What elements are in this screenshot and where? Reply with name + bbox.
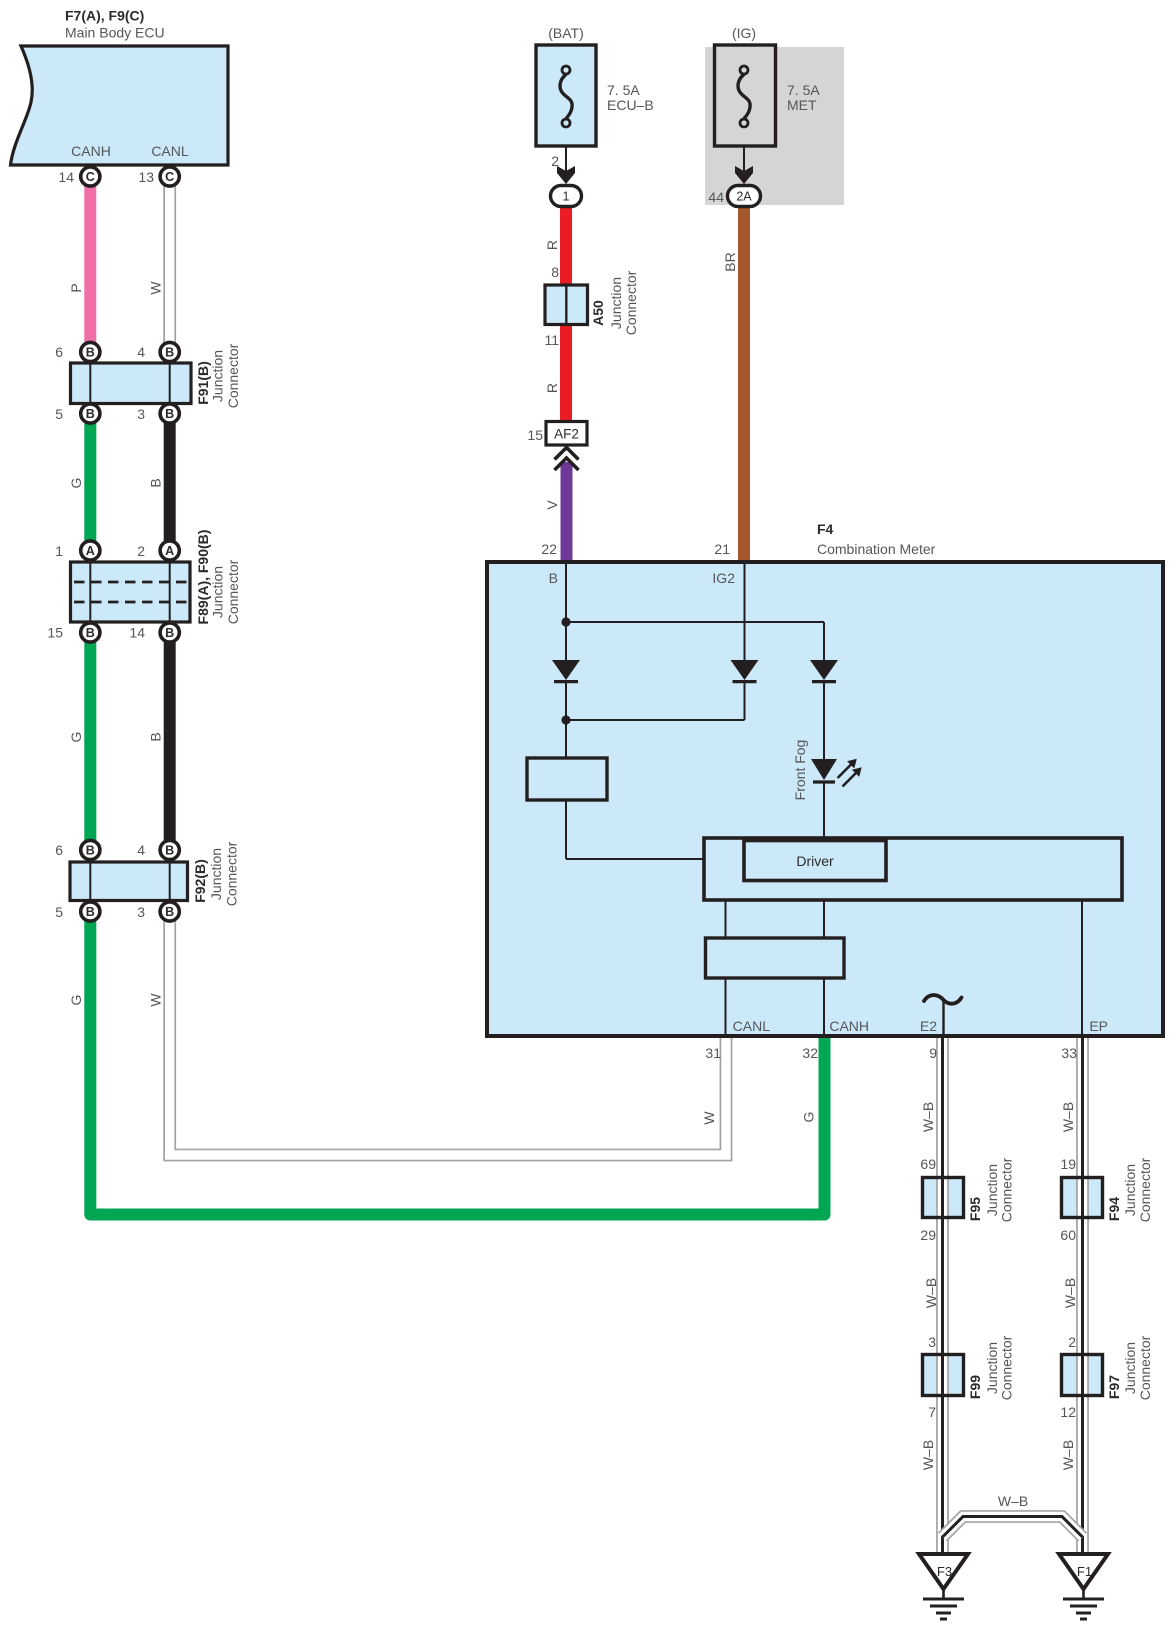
svg-text:Connector: Connector [1137, 1157, 1153, 1222]
svg-text:15: 15 [527, 427, 543, 443]
svg-text:Connector: Connector [224, 841, 240, 906]
svg-text:Driver: Driver [796, 853, 834, 869]
svg-text:G: G [68, 478, 84, 489]
svg-text:7: 7 [928, 1404, 936, 1420]
svg-text:Connector: Connector [998, 1157, 1014, 1222]
svg-text:B: B [165, 626, 174, 640]
svg-text:29: 29 [920, 1227, 936, 1243]
svg-text:R: R [544, 240, 560, 250]
svg-text:B: B [165, 407, 174, 421]
svg-text:CANL: CANL [733, 1018, 771, 1034]
svg-text:Junction: Junction [210, 350, 226, 402]
svg-text:F99: F99 [967, 1375, 983, 1399]
svg-text:BR: BR [722, 252, 738, 271]
svg-text:6: 6 [55, 344, 63, 360]
svg-text:W–B: W–B [1062, 1278, 1078, 1308]
svg-text:3: 3 [137, 904, 145, 920]
svg-text:2A: 2A [736, 190, 752, 204]
svg-text:B: B [148, 732, 164, 741]
svg-text:19: 19 [1060, 1156, 1076, 1172]
svg-text:B: B [86, 407, 95, 421]
svg-text:Front Fog: Front Fog [792, 740, 808, 801]
svg-text:(IG): (IG) [732, 25, 756, 41]
svg-text:B: B [86, 346, 95, 360]
svg-text:B: B [165, 844, 174, 858]
svg-text:22: 22 [541, 541, 557, 557]
svg-text:G: G [68, 732, 84, 743]
svg-text:EP: EP [1089, 1018, 1108, 1034]
svg-text:4: 4 [137, 842, 145, 858]
svg-text:32: 32 [802, 1045, 818, 1061]
svg-text:F1: F1 [1077, 1564, 1092, 1579]
svg-text:Connector: Connector [225, 343, 241, 408]
svg-text:P: P [68, 283, 84, 292]
svg-text:Connector: Connector [998, 1335, 1014, 1400]
svg-text:G: G [801, 1112, 817, 1123]
svg-text:B: B [86, 626, 95, 640]
svg-text:1: 1 [563, 190, 570, 204]
svg-text:31: 31 [705, 1045, 721, 1061]
svg-text:12: 12 [1060, 1404, 1076, 1420]
svg-text:E2: E2 [920, 1018, 937, 1034]
svg-text:3: 3 [137, 406, 145, 422]
svg-text:15: 15 [47, 625, 63, 641]
svg-text:7. 5A: 7. 5A [787, 82, 820, 98]
svg-text:14: 14 [129, 625, 145, 641]
svg-text:2: 2 [1068, 1334, 1076, 1350]
svg-text:1: 1 [55, 543, 63, 559]
svg-text:W–B: W–B [1060, 1102, 1076, 1132]
svg-text:W–B: W–B [923, 1278, 939, 1308]
svg-text:Connector: Connector [623, 270, 639, 335]
svg-text:44: 44 [708, 189, 724, 205]
svg-text:33: 33 [1061, 1045, 1077, 1061]
svg-text:13: 13 [138, 169, 154, 185]
svg-text:Combination Meter: Combination Meter [817, 541, 936, 557]
svg-text:MET: MET [787, 97, 817, 113]
svg-text:F3: F3 [937, 1564, 952, 1579]
svg-text:8: 8 [551, 264, 559, 280]
svg-text:60: 60 [1060, 1227, 1076, 1243]
svg-text:CANH: CANH [71, 143, 111, 159]
svg-text:B: B [86, 844, 95, 858]
svg-text:14: 14 [58, 169, 74, 185]
svg-text:G: G [68, 995, 84, 1006]
svg-text:W: W [148, 281, 164, 295]
svg-text:Junction: Junction [210, 566, 226, 618]
svg-text:Connector: Connector [1137, 1335, 1153, 1400]
svg-text:IG2: IG2 [712, 570, 735, 586]
svg-text:B: B [148, 478, 164, 487]
svg-text:B: B [86, 905, 95, 919]
svg-text:F92(B): F92(B) [192, 859, 208, 903]
svg-text:Junction: Junction [608, 277, 624, 329]
svg-text:F97: F97 [1106, 1375, 1122, 1399]
svg-text:Connector: Connector [225, 559, 241, 624]
svg-text:AF2: AF2 [554, 427, 579, 442]
svg-text:A: A [86, 544, 95, 558]
svg-text:A: A [165, 544, 174, 558]
svg-text:W–B: W–B [920, 1102, 936, 1132]
svg-text:4: 4 [137, 344, 145, 360]
svg-text:F4: F4 [817, 521, 834, 537]
svg-text:7. 5A: 7. 5A [607, 82, 640, 98]
svg-text:W–B: W–B [920, 1440, 936, 1470]
svg-text:B: B [165, 905, 174, 919]
svg-text:W–B: W–B [1060, 1440, 1076, 1470]
svg-text:B: B [165, 346, 174, 360]
svg-text:F94: F94 [1106, 1197, 1122, 1221]
svg-text:F95: F95 [967, 1197, 983, 1221]
svg-text:9: 9 [929, 1045, 937, 1061]
svg-text:6: 6 [55, 842, 63, 858]
svg-text:C: C [86, 170, 95, 184]
svg-text:F7(A), F9(C): F7(A), F9(C) [65, 8, 144, 24]
svg-text:3: 3 [928, 1334, 936, 1350]
svg-text:69: 69 [920, 1156, 936, 1172]
svg-text:C: C [165, 170, 174, 184]
svg-text:B: B [549, 570, 558, 586]
svg-text:5: 5 [55, 406, 63, 422]
svg-text:5: 5 [55, 904, 63, 920]
svg-text:V: V [544, 500, 560, 510]
svg-text:2: 2 [137, 543, 145, 559]
svg-text:ECU–B: ECU–B [607, 97, 654, 113]
svg-text:W: W [701, 1111, 717, 1125]
svg-text:(BAT): (BAT) [548, 25, 584, 41]
svg-text:Junction: Junction [208, 848, 224, 900]
svg-text:11: 11 [544, 332, 559, 348]
svg-text:W–B: W–B [998, 1493, 1028, 1509]
svg-text:CANL: CANL [151, 143, 189, 159]
svg-text:A50: A50 [590, 300, 606, 326]
svg-text:Junction: Junction [1122, 1342, 1138, 1394]
svg-text:Junction: Junction [1122, 1164, 1138, 1216]
svg-text:CANH: CANH [829, 1018, 869, 1034]
svg-text:Main Body ECU: Main Body ECU [65, 25, 165, 41]
svg-text:21: 21 [714, 541, 730, 557]
svg-text:W: W [148, 993, 164, 1007]
svg-text:R: R [544, 383, 560, 393]
